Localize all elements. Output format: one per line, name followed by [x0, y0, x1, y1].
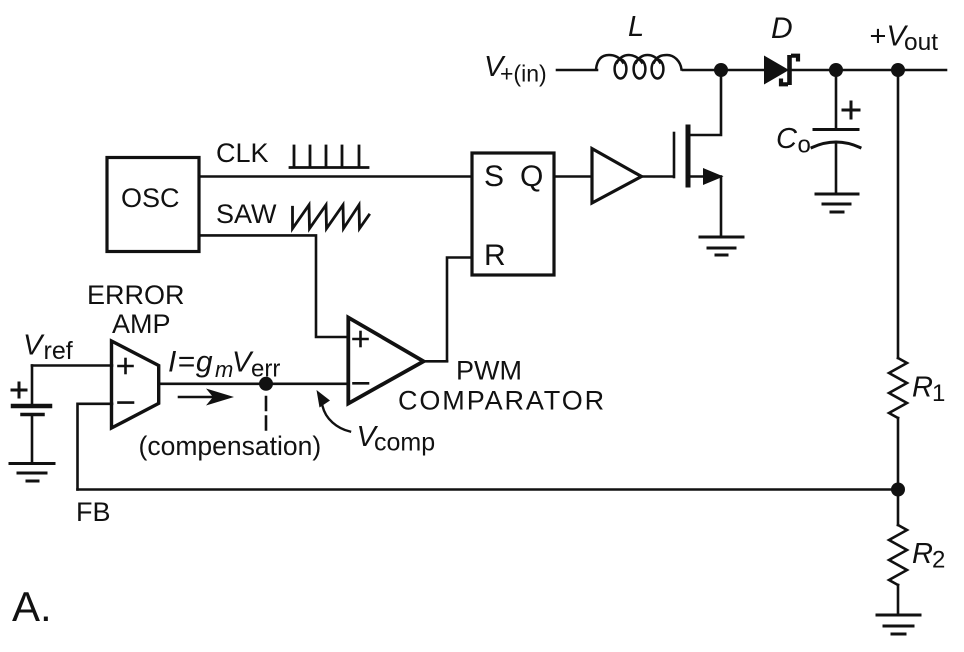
arrow Vcomp pointer [317, 390, 351, 432]
label R2 [912, 538, 945, 574]
wire comparator output to R [423, 360, 447, 363]
node Vout junction [891, 63, 905, 77]
battery V1 [13, 406, 50, 415]
wire R input [447, 258, 472, 362]
wire gate [641, 175, 674, 178]
label I=gmVerr [168, 346, 280, 383]
ground under transistor [700, 237, 743, 255]
resistor R1 [889, 358, 907, 418]
waveform CLK [290, 146, 368, 168]
svg-text:AMP: AMP [112, 309, 171, 339]
wire error amp output to comparator minus input [160, 382, 349, 385]
svg-text:PWM: PWM [456, 356, 522, 386]
label +Vout [870, 21, 939, 57]
svg-text:D: D [771, 12, 793, 45]
ground under battery [10, 464, 54, 482]
error amp minus sign [119, 401, 134, 404]
wire Vref down to battery [31, 366, 34, 407]
transistor Q1 channel bar [686, 127, 691, 185]
ground under Co [816, 194, 858, 212]
node switch junction [714, 63, 728, 77]
comparator PWM triangle [348, 318, 423, 404]
svg-text:R: R [912, 372, 933, 404]
label R1 [912, 372, 945, 408]
svg-text:1: 1 [932, 380, 945, 407]
svg-text:(compensation): (compensation) [139, 431, 322, 461]
svg-text:A.: A. [12, 583, 52, 630]
wire input to inductor [557, 69, 597, 72]
svg-text:m: m [215, 357, 233, 382]
svg-text:R: R [912, 538, 933, 570]
svg-text:CLK: CLK [216, 138, 269, 168]
wire R1 to FB node [897, 418, 900, 525]
resistor R2 [889, 525, 907, 585]
label Vref [23, 330, 73, 366]
transistor Q1 gate bar [673, 133, 676, 177]
label Co [776, 123, 811, 159]
svg-text:comp: comp [374, 429, 435, 457]
inductor L [596, 55, 682, 79]
svg-text:+(in): +(in) [500, 61, 547, 87]
wire Vout to capacitor Co [835, 70, 838, 128]
svg-text:R: R [484, 239, 506, 272]
wire FB feedback line [78, 488, 899, 491]
comparator minus sign [354, 382, 369, 385]
node compensation [259, 377, 273, 391]
wire SAW from OSC down to comparator plus input [199, 235, 348, 337]
svg-text:V: V [23, 330, 45, 362]
node Co junction [829, 63, 843, 77]
svg-text:SAW: SAW [216, 199, 277, 229]
wire minus input to FB [78, 404, 113, 490]
oscillator OSC box [107, 158, 199, 252]
label Vcomp [357, 421, 436, 457]
wire diode to output [789, 69, 946, 72]
transistor Q1 source arrow [688, 168, 724, 185]
svg-text:2: 2 [932, 547, 945, 574]
wire Vout down to R1 [897, 70, 900, 358]
wire capacitor to ground [835, 143, 838, 194]
svg-text:ref: ref [44, 337, 73, 365]
ground under R2 [877, 615, 920, 634]
svg-text:COMPARATOR: COMPARATOR [398, 386, 606, 416]
diode D (Schottky) [764, 55, 798, 85]
arrow current direction [179, 389, 234, 406]
wire R2 to ground [897, 585, 900, 615]
buffer driver triangle [592, 149, 642, 203]
node FB junction [891, 483, 905, 497]
wire Vref to plus input [32, 364, 112, 367]
battery V1 plus sign [12, 383, 26, 397]
capacitor Co plus sign [843, 102, 859, 118]
wire drain [689, 77, 721, 136]
svg-text:C: C [776, 123, 798, 155]
wire source to ground [720, 177, 723, 238]
wire Q output to buffer [554, 175, 592, 178]
node Vin label [484, 51, 547, 87]
wire battery to ground [31, 415, 34, 464]
waveform SAW [293, 205, 370, 229]
capacitor Co [812, 130, 860, 148]
op-amp error amp trapezoid [112, 341, 159, 428]
svg-text:OSC: OSC [121, 183, 180, 213]
comparator plus sign [354, 332, 368, 346]
svg-text:+V: +V [870, 21, 909, 53]
wire CLK from OSC to S input [199, 175, 472, 178]
svg-text:S: S [484, 160, 504, 193]
svg-text:Q: Q [520, 160, 543, 193]
svg-text:FB: FB [76, 497, 111, 527]
error amp plus sign [119, 359, 133, 373]
wire inductor to diode [683, 69, 764, 72]
svg-text:I=g: I=g [168, 346, 214, 379]
svg-text:out: out [904, 29, 938, 56]
latch U1 box [472, 153, 554, 275]
wire dashed compensation stub [265, 397, 268, 430]
svg-text:ERROR: ERROR [87, 280, 185, 310]
svg-text:o: o [798, 132, 811, 159]
svg-text:L: L [628, 11, 644, 43]
